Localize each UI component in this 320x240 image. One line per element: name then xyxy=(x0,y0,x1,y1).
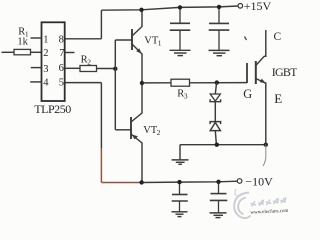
node VT2 emitter on rail xyxy=(139,180,143,184)
svg-text:www.elecfans.com: www.elecfans.com xyxy=(250,209,288,216)
wire -10V rail xyxy=(142,181,238,182)
wire base bus vertical xyxy=(114,40,116,130)
resistor R1 xyxy=(2,49,42,54)
transistor VT1 xyxy=(115,10,142,83)
node VT1 collector on rail xyxy=(139,8,143,12)
node C1 top xyxy=(178,5,182,9)
svg-text:VT2: VT2 xyxy=(143,125,160,137)
capacitor C4 xyxy=(210,182,228,213)
wire +15V top rail xyxy=(101,6,238,10)
ground for C1 xyxy=(170,50,191,55)
capacitor C1 xyxy=(170,7,191,50)
svg-text:−10V: −10V xyxy=(245,175,273,189)
svg-text:IGBT: IGBT xyxy=(272,65,297,79)
transistor VT2 xyxy=(115,83,142,182)
svg-text:4: 4 xyxy=(43,77,49,88)
wire to ground xyxy=(179,145,181,160)
node C2 top xyxy=(217,5,221,9)
svg-text:VT1: VT1 xyxy=(144,35,161,47)
svg-text:1k: 1k xyxy=(17,37,28,48)
node zener bottom xyxy=(215,143,219,147)
ground for C3 xyxy=(172,212,188,217)
svg-text:2: 2 xyxy=(43,48,48,59)
node C3 top xyxy=(177,180,181,184)
node zener tap xyxy=(215,80,219,84)
capacitor C3 xyxy=(172,182,188,212)
wire pin5 drop upper xyxy=(100,83,102,148)
svg-text:TLP250: TLP250 xyxy=(34,102,71,116)
op-amp U1 TLP250 IC body xyxy=(42,22,65,101)
wire emitter/ground bus xyxy=(180,144,266,146)
transistor IGBT xyxy=(247,30,266,145)
resistor R2 xyxy=(65,66,116,72)
pin 1 stub xyxy=(31,37,42,39)
ground for C2 xyxy=(209,50,230,55)
wire -10V rail left segment (rust tint) xyxy=(101,182,141,184)
svg-text:3: 3 xyxy=(43,64,48,75)
pin 7 stub xyxy=(65,52,75,54)
node C4 top xyxy=(216,180,220,184)
capacitor C2 xyxy=(209,7,230,51)
node -10V terminal xyxy=(237,179,242,184)
wire pin5 horizontal xyxy=(65,82,102,84)
watermark swirl xyxy=(234,189,250,218)
ground for C4 xyxy=(210,213,227,218)
scan speck xyxy=(245,37,247,41)
wire pin5 drop lower (rust tint) xyxy=(100,148,102,183)
node +15V terminal xyxy=(238,4,243,9)
svg-text:5: 5 xyxy=(59,77,64,88)
watermark text line 1 xyxy=(251,197,286,206)
svg-text:G: G xyxy=(243,87,252,101)
ground xyxy=(172,160,189,164)
wire pin8 riser xyxy=(100,10,102,39)
wire emitter stub below junction xyxy=(263,145,266,166)
svg-text:+15V: +15V xyxy=(244,0,272,13)
zener diode VZ bottom xyxy=(210,122,221,145)
svg-text:8: 8 xyxy=(59,34,64,45)
pin 3 stub xyxy=(31,67,42,69)
svg-text:7: 7 xyxy=(59,48,64,59)
wire pin8 to IC xyxy=(65,38,102,40)
node base junction xyxy=(113,67,117,71)
pin 4 stub xyxy=(30,81,41,83)
node output junction xyxy=(140,81,144,85)
zener diode VZ top xyxy=(210,83,221,122)
svg-text:6: 6 xyxy=(59,63,64,74)
svg-text:C: C xyxy=(274,31,282,43)
node emitter junction xyxy=(264,143,268,147)
svg-text:1: 1 xyxy=(43,34,48,45)
svg-text:R2: R2 xyxy=(81,54,92,66)
svg-text:R3: R3 xyxy=(177,88,188,100)
resistor R3 xyxy=(142,79,247,86)
svg-text:E: E xyxy=(274,91,282,106)
